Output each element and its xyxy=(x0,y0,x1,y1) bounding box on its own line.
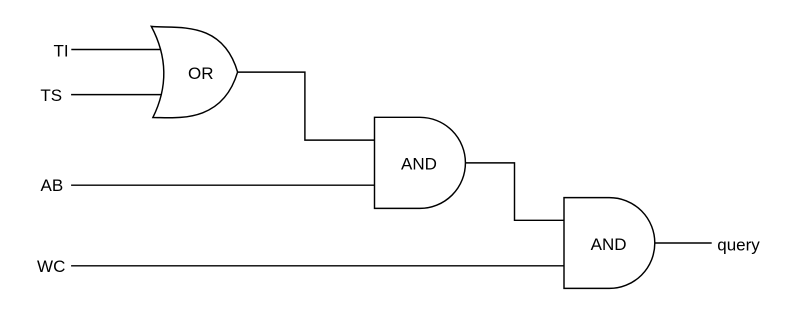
wire AND U2 output to AND U3 top input xyxy=(465,163,564,220)
wire OR output to AND U2 top input xyxy=(238,72,375,140)
svg-text:TS: TS xyxy=(40,86,62,105)
AND gate U3 body xyxy=(564,198,655,289)
svg-text:query: query xyxy=(717,235,760,254)
wire AND U3 output to query xyxy=(655,242,712,244)
OR gate U1 body xyxy=(151,26,237,117)
svg-text:TI: TI xyxy=(53,41,68,60)
svg-text:AB: AB xyxy=(41,176,64,195)
AND gate U2 body xyxy=(375,117,466,208)
svg-text:AND: AND xyxy=(401,154,437,173)
svg-text:AND: AND xyxy=(591,235,627,254)
wire TS input to OR gate xyxy=(71,94,166,96)
wire WC input to AND gate U3 xyxy=(71,265,564,267)
wire TI input to OR gate xyxy=(71,49,166,51)
svg-text:WC: WC xyxy=(37,257,65,276)
wire AB input to AND gate U2 xyxy=(71,184,374,186)
svg-text:OR: OR xyxy=(188,64,214,83)
